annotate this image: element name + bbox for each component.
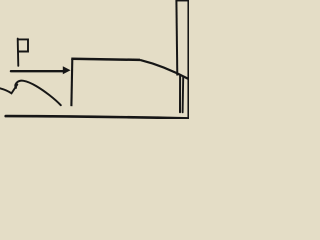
workpiece top edge segment [176,0,189,2]
right border [187,0,189,119]
base line [6,116,189,118]
flag symbol P [18,39,28,66]
hanging vertical B [182,77,185,112]
hanging vertical C [179,76,181,113]
workpiece left edge (line A) [175,0,178,76]
chip curl stroke [15,81,61,106]
tool left edge [70,59,73,107]
feed arrow head [63,66,71,74]
tool top edge [71,59,140,60]
chip checkmark stroke [0,85,17,94]
tool rake face diagonal [140,60,188,79]
feed arrow shaft [11,70,65,72]
